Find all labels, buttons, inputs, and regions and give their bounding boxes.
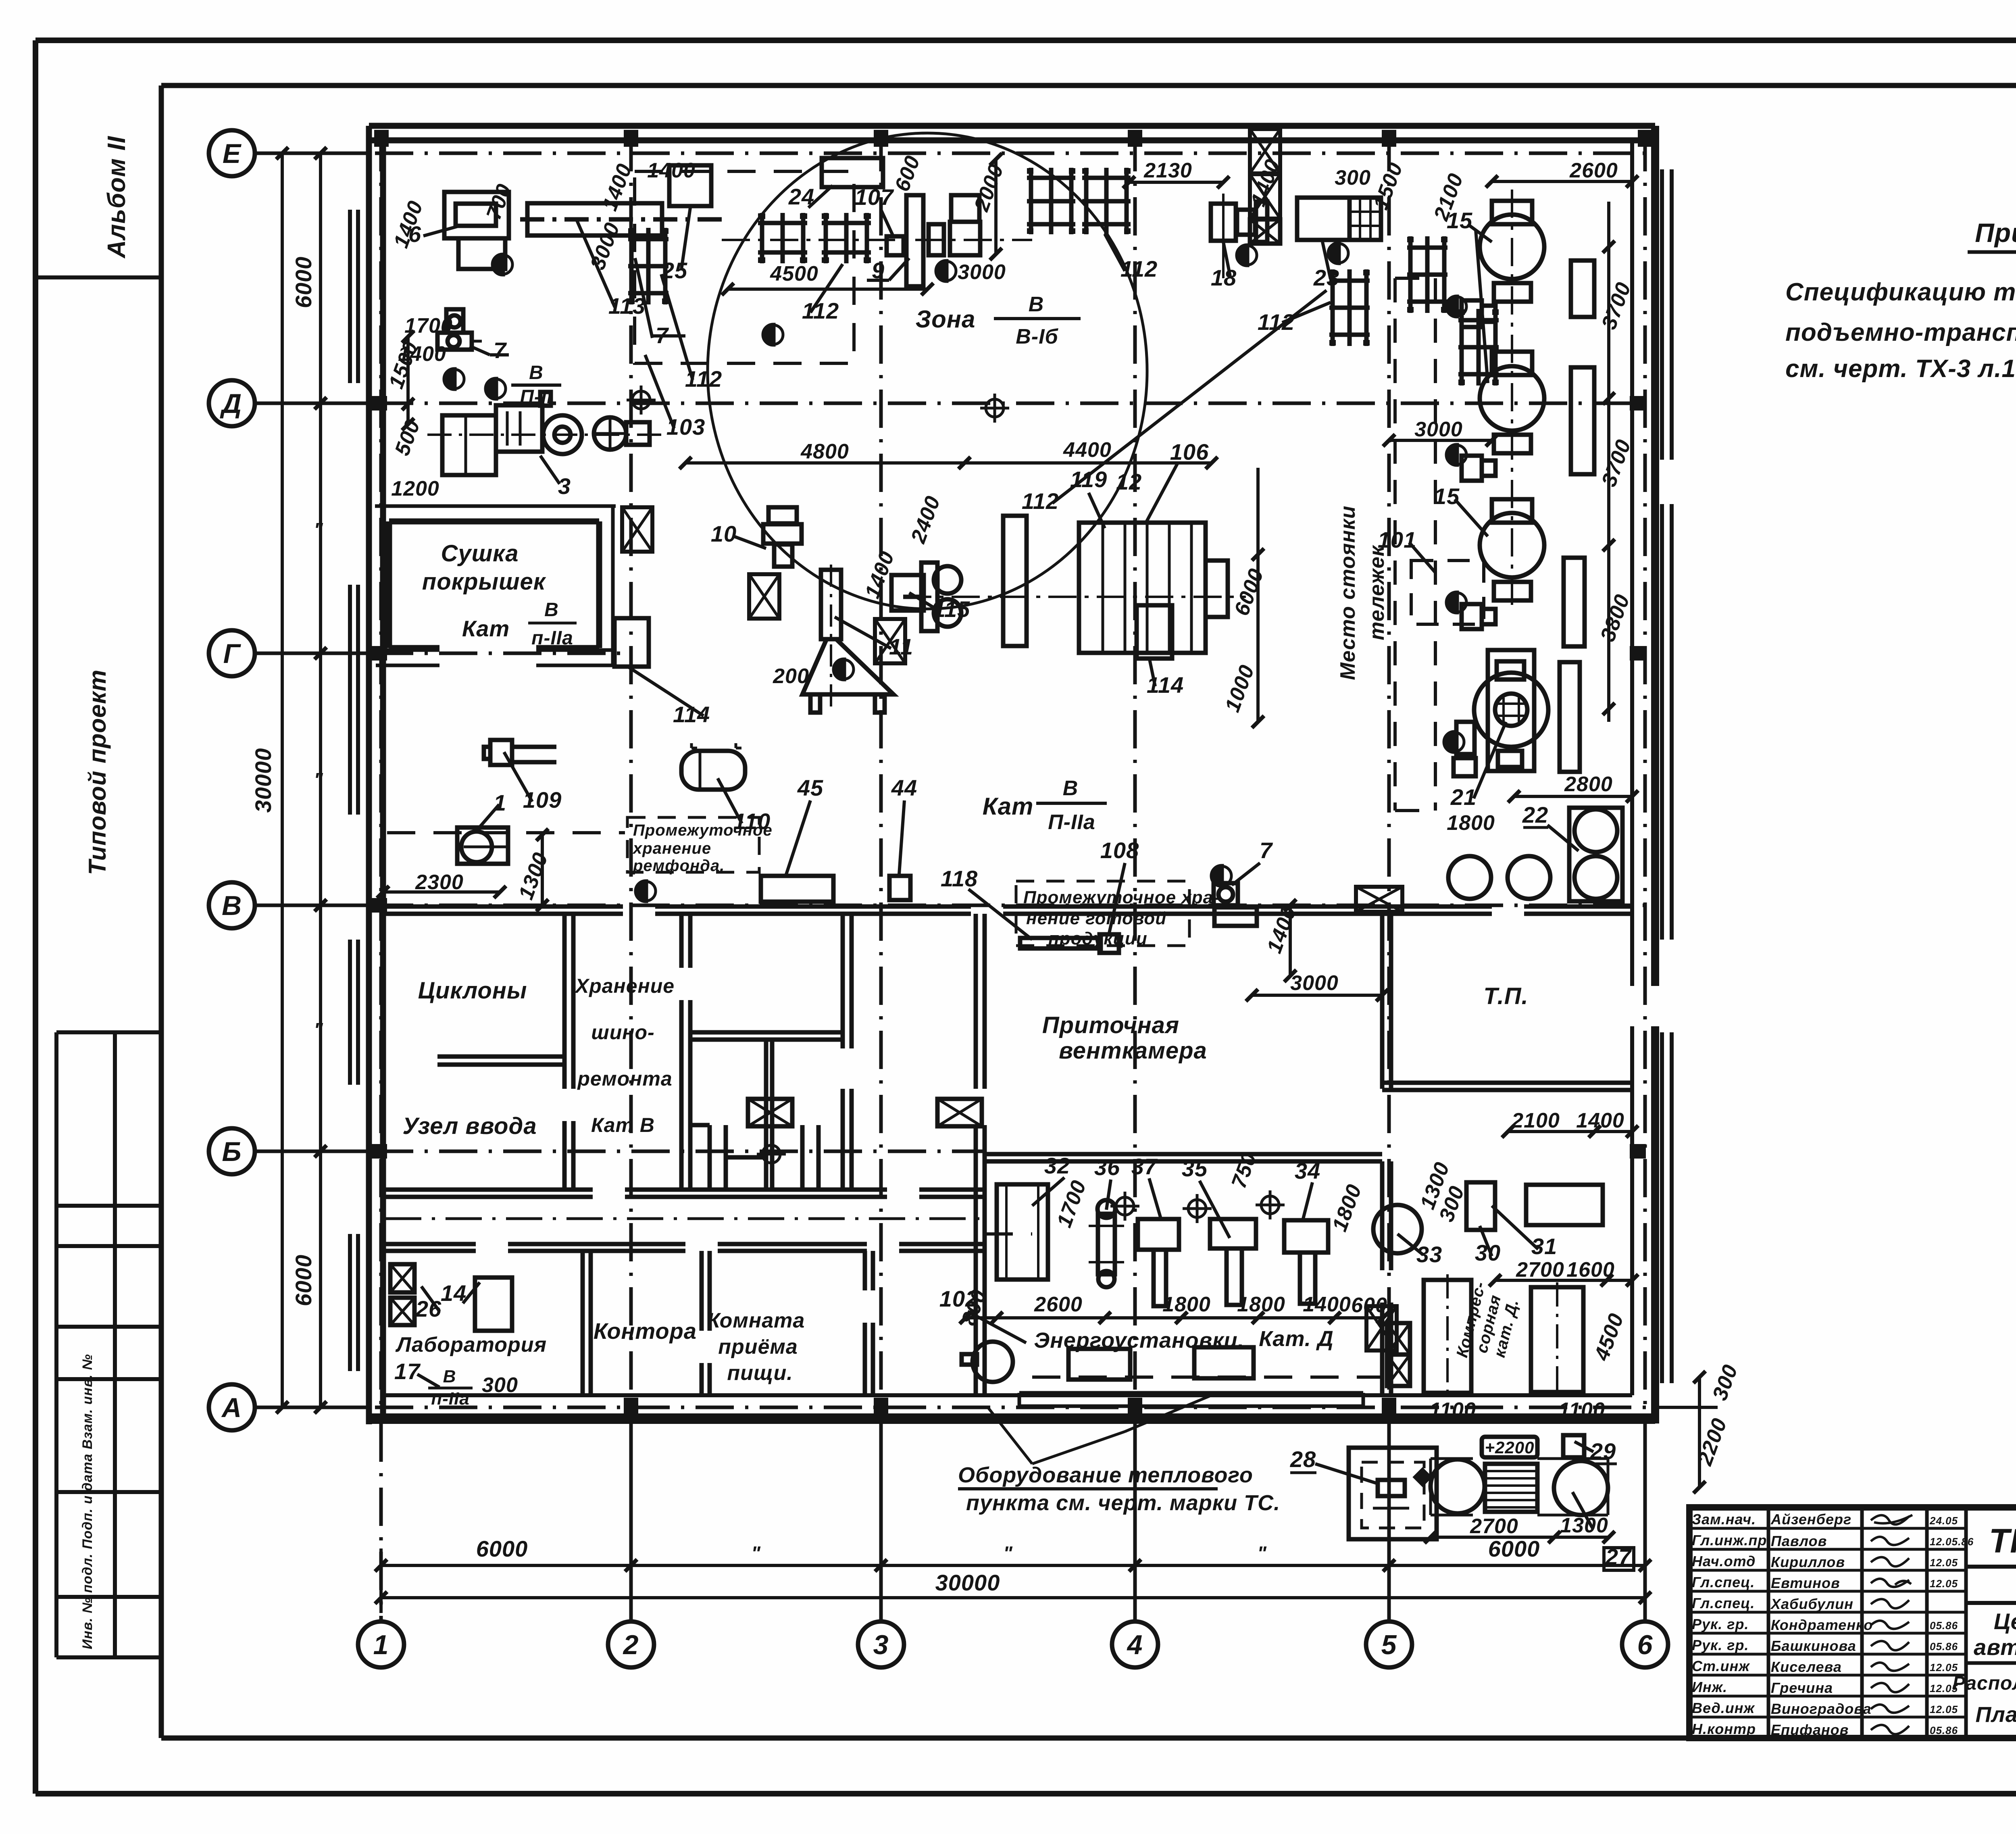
machine 115 [891, 575, 924, 611]
lower rects energo [1068, 1347, 1254, 1380]
svg-text:1400: 1400 [1576, 1109, 1624, 1132]
cyclone room half wall [437, 1057, 564, 1065]
svg-text:Цех по ремонту: Цех по ремонту [1994, 1609, 2016, 1634]
svg-text:Оборудование теплового: Оборудование теплового [958, 1463, 1253, 1487]
svg-text:22: 22 [1522, 802, 1548, 827]
svg-text:Комната: Комната [707, 1309, 805, 1332]
svg-text:11: 11 [889, 634, 913, 659]
svg-text:2700: 2700 [1470, 1515, 1518, 1538]
svg-text:12.05.86: 12.05.86 [1930, 1536, 1974, 1548]
svg-text:хранение: хранение [632, 840, 711, 857]
svg-text:Альбом II: Альбом II [103, 135, 131, 259]
leader lines [417, 185, 1593, 1528]
svg-text:Промежуточное хра-: Промежуточное хра- [1023, 888, 1220, 907]
svg-text:Кат В: Кат В [591, 1114, 655, 1136]
svg-text:7: 7 [1260, 838, 1273, 863]
svg-text:600: 600 [1351, 1294, 1387, 1317]
svg-text:32: 32 [1044, 1153, 1070, 1178]
svg-text:114: 114 [673, 702, 710, 727]
svg-text:тележек: тележек [1365, 545, 1389, 640]
compressor machines [1424, 1274, 1583, 1397]
machine 7 right [1214, 883, 1257, 926]
svg-text:109: 109 [523, 787, 562, 813]
svg-text:3000: 3000 [1290, 971, 1339, 995]
svg-text:А: А [221, 1392, 242, 1423]
svg-text:7: 7 [494, 338, 507, 363]
svg-text:Киселева: Киселева [1771, 1659, 1842, 1675]
svg-text:700: 700 [482, 181, 516, 223]
svg-text:Хабибулин: Хабибулин [1770, 1596, 1854, 1612]
svg-text:3: 3 [558, 473, 571, 499]
svg-text:1: 1 [494, 790, 506, 815]
svg-text:Гл.спец.: Гл.спец. [1692, 1574, 1755, 1590]
svg-text:п-IIа: п-IIа [431, 1389, 469, 1409]
svg-text:30000: 30000 [935, 1570, 1000, 1595]
circle pair row [1448, 856, 1550, 899]
svg-text:4400: 4400 [1063, 438, 1112, 462]
svg-text:ТП 405-7-4.86: ТП 405-7-4.86 [1989, 1522, 2016, 1560]
X tower near 18 [1250, 129, 1280, 244]
racks pair right of 9 [1027, 168, 1131, 234]
svg-text:1100: 1100 [1429, 1398, 1476, 1422]
svg-text:45: 45 [797, 775, 823, 800]
svg-text:3800: 3800 [1596, 591, 1634, 644]
svg-text:6: 6 [1637, 1630, 1653, 1660]
svg-text:Н.контр: Н.контр [1692, 1721, 1756, 1737]
svg-text:2000: 2000 [970, 161, 1008, 215]
machine 7 drill [437, 309, 482, 350]
axis col circle 4 [1112, 1621, 1158, 1667]
svg-text:ремонта: ремонта [577, 1067, 672, 1090]
machine 22 block [1569, 808, 1622, 901]
svg-text:23: 23 [1313, 265, 1339, 290]
svg-text:1200: 1200 [391, 477, 439, 500]
circle bottom-left energo [962, 1342, 1013, 1382]
svg-text:3700: 3700 [1597, 436, 1635, 490]
dimension lines with ticks [377, 153, 1718, 1543]
svg-text:шино-: шино- [591, 1021, 654, 1044]
wall pilasters left [371, 396, 387, 411]
svg-text:Епифанов: Епифанов [1771, 1721, 1849, 1738]
svg-text:Узел ввода: Узел ввода [402, 1113, 537, 1139]
main title block frame [1689, 1507, 2016, 1738]
svg-text:6000: 6000 [476, 1536, 528, 1561]
svg-text:Сушка: Сушка [441, 540, 519, 567]
svg-text:10: 10 [711, 521, 737, 546]
svg-text:Вед.инж: Вед.инж [1692, 1700, 1755, 1716]
svg-text:см. черт. ТХ-3 л.1.: см. черт. ТХ-3 л.1. [1785, 355, 2016, 383]
machine 18 [1211, 194, 1267, 278]
svg-text:12.05: 12.05 [1930, 1557, 1958, 1569]
wall pilasters top [371, 130, 1652, 1414]
axis row circle V [209, 882, 255, 928]
axis col circle 5 [1366, 1621, 1412, 1667]
dashed rect 101 [1411, 561, 1484, 624]
svg-text:12.05: 12.05 [1930, 1703, 1958, 1715]
big lathe machine 12 [903, 516, 1246, 653]
svg-text:Инж.: Инж. [1692, 1679, 1727, 1695]
svg-text:44: 44 [891, 775, 917, 800]
X box compressor left [1366, 1306, 1397, 1350]
svg-text:15: 15 [1447, 208, 1472, 233]
svg-text:3000: 3000 [1414, 418, 1463, 441]
svg-text:Кат. Д: Кат. Д [1259, 1327, 1334, 1351]
axis row circle A [209, 1384, 255, 1430]
svg-text:Рук. гр.: Рук. гр. [1692, 1616, 1749, 1632]
svg-text:Зона: Зона [916, 306, 976, 333]
svg-text:600: 600 [890, 152, 925, 194]
machine 3 group [427, 392, 661, 475]
svg-text:нение готовой: нение готовой [1026, 909, 1166, 928]
svg-text:2400: 2400 [906, 493, 945, 546]
svg-text:В: В [544, 599, 559, 621]
column axis dash-dot lines [381, 133, 1645, 1621]
svg-text:2100: 2100 [1511, 1109, 1560, 1132]
square 29 [1563, 1435, 1584, 1457]
right part lines [1966, 1565, 2016, 1569]
conveyor racks row [722, 213, 1032, 263]
svg-text:Контора: Контора [594, 1318, 697, 1344]
svg-text:В: В [529, 362, 544, 383]
crosshair markers top [627, 386, 1009, 1169]
machine 36 vessel [1089, 1200, 1124, 1287]
machine 114 right [1137, 605, 1172, 659]
loading ramp bottom [1019, 1393, 1363, 1406]
svg-text:18: 18 [1211, 265, 1237, 290]
X box energo right [1387, 1323, 1410, 1386]
svg-text:Приточная: Приточная [1042, 1012, 1179, 1038]
racks right top [1329, 236, 1499, 386]
conveyor 24 rect [822, 158, 883, 187]
svg-text:2: 2 [623, 1630, 639, 1660]
svg-text:2600: 2600 [1034, 1293, 1083, 1316]
axis col circle 6 [1622, 1621, 1668, 1667]
svg-text:Примечание.: Примечание. [1975, 218, 2016, 248]
svg-text:119: 119 [1070, 467, 1107, 492]
svg-text:п-IIа: п-IIа [531, 627, 573, 649]
svg-text:4500: 4500 [1590, 1310, 1629, 1364]
X box mid [749, 574, 779, 619]
rack 112 left [628, 228, 669, 304]
svg-text:Гречина: Гречина [1771, 1680, 1833, 1696]
axis col circle 2 [608, 1621, 654, 1667]
signature table verticals [1768, 1507, 1966, 1738]
svg-text:1700: 1700 [1052, 1177, 1091, 1230]
svg-text:Кат: Кат [983, 793, 1034, 820]
svg-text:1100: 1100 [1558, 1398, 1605, 1422]
lower band top wall [383, 1244, 984, 1251]
svg-text:": " [314, 769, 323, 791]
bottom dimension chain [381, 1548, 1645, 1613]
svg-text:Кат: Кат [462, 616, 510, 641]
22 underline [1523, 826, 1548, 829]
svg-text:": " [1257, 1543, 1267, 1564]
svg-text:Лаборатория: Лаборатория [395, 1333, 547, 1357]
outside pavement strips left [350, 169, 1672, 1383]
svg-text:108: 108 [1100, 838, 1139, 863]
svg-text:36: 36 [1094, 1155, 1120, 1180]
axis row circle E [209, 130, 255, 176]
svg-text:1300: 1300 [1560, 1514, 1608, 1537]
machine 1 [457, 827, 508, 864]
svg-text:Гл.спец.: Гл.спец. [1692, 1595, 1755, 1611]
machine 114 sushka [614, 618, 649, 667]
svg-text:Циклоны: Циклоны [418, 977, 527, 1004]
svg-text:Спецификацию технологического: Спецификацию технологического и [1785, 278, 2016, 306]
svg-text:Башкинова: Башкинова [1771, 1638, 1856, 1654]
ventkamera room [976, 914, 1632, 1395]
wall pilasters bottom [624, 1398, 638, 1414]
signature rows [1689, 1528, 1966, 1717]
svg-text:6000: 6000 [291, 256, 316, 308]
lab fraction [428, 1367, 473, 1409]
svg-text:План на отм. 0.000: План на отм. 0.000 [1975, 1703, 2016, 1727]
svg-text:В: В [1029, 293, 1044, 316]
svg-text:102: 102 [939, 1286, 978, 1311]
X boxes stair block [748, 1099, 982, 1126]
promezhutochnoe hranenie gotovoy produkcii dashed box [1016, 881, 1220, 948]
machine 109 [484, 740, 556, 765]
svg-text:": " [314, 1019, 323, 1041]
svg-text:Кириллов: Кириллов [1771, 1554, 1845, 1570]
svg-text:Айзенберг: Айзенберг [1770, 1511, 1851, 1528]
wall pilasters right [1630, 396, 1646, 411]
machine 107 [887, 195, 944, 286]
machine 34 T [1284, 1220, 1328, 1304]
svg-text:1: 1 [373, 1630, 389, 1660]
circles 15 group [1480, 190, 1544, 605]
small clusters left of 15 [1462, 300, 1495, 629]
svg-text:Б: Б [222, 1136, 242, 1167]
svg-text:101: 101 [1378, 527, 1416, 552]
svg-text:Рук. гр.: Рук. гр. [1692, 1637, 1749, 1653]
svg-text:2800: 2800 [1564, 773, 1613, 796]
svg-text:покрышек: покрышек [422, 569, 546, 595]
equipment number labels [394, 184, 1632, 1569]
machine 113 conveyor [520, 203, 726, 236]
svg-text:автомобильных шин.: автомобильных шин. [1974, 1634, 2016, 1660]
svg-text:5: 5 [1381, 1630, 1397, 1660]
svg-text:Е: Е [223, 138, 242, 169]
X box mid2 [875, 619, 905, 663]
B-row wall [383, 1190, 984, 1197]
machine 37 T [1138, 1219, 1179, 1306]
axis row circle B [209, 1128, 255, 1174]
axis col circle 3 [858, 1621, 904, 1667]
svg-text:": " [751, 1543, 761, 1564]
outside pavement strips right [1662, 169, 1672, 460]
machine 31 [1526, 1185, 1603, 1225]
X box near sushka [622, 507, 652, 552]
svg-text:106: 106 [1170, 439, 1209, 465]
X boxes laboratory [390, 1264, 512, 1331]
svg-text:118: 118 [941, 866, 978, 891]
svg-text:": " [1003, 1543, 1013, 1564]
svg-text:Евтинов: Евтинов [1771, 1575, 1840, 1591]
date column small texts [1929, 1515, 1974, 1736]
svg-text:Инв. № подл. Подп. и дата Вз: Инв. № подл. Подп. и дата Взам. инв. № [80, 1354, 95, 1649]
svg-text:300: 300 [1708, 1361, 1742, 1403]
svg-text:1300: 1300 [514, 849, 552, 902]
svg-text:Т.П.: Т.П. [1483, 983, 1528, 1009]
svg-text:Типовой проект: Типовой проект [84, 669, 111, 875]
svg-text:Хранение: Хранение [574, 975, 675, 997]
svg-text:4800: 4800 [800, 440, 849, 463]
svg-text:пункта см. черт. марки ТС: пункта см. черт. марки ТС. [966, 1491, 1280, 1515]
zone circle [708, 133, 1147, 609]
svg-text:200: 200 [773, 665, 809, 688]
svg-text:В: В [222, 890, 242, 921]
promezhutochnoe hranenie remfonda dashed box [627, 817, 773, 875]
svg-text:": " [314, 519, 323, 541]
machine 32 [997, 1184, 1048, 1280]
row axis dash-dot lines [255, 153, 1655, 1407]
svg-text:05.86: 05.86 [1930, 1619, 1958, 1632]
svg-text:1500: 1500 [1369, 159, 1407, 213]
svg-text:1400: 1400 [1303, 1293, 1351, 1316]
svg-text:Д: Д [220, 388, 242, 419]
svg-text:Расположение оборудования.: Расположение оборудования. [1952, 1673, 2016, 1694]
rect right of 21 [1560, 662, 1580, 772]
svg-text:1800: 1800 [1328, 1181, 1366, 1234]
svg-text:107: 107 [855, 184, 894, 210]
svg-text:3: 3 [873, 1630, 889, 1660]
svg-text:17: 17 [394, 1359, 421, 1384]
svg-text:Кондратенко: Кондратенко [1771, 1617, 1873, 1633]
svg-text:приёма: приёма [718, 1335, 798, 1359]
outer wall bottom [369, 1413, 1655, 1424]
left dimension chain [264, 153, 339, 1407]
left margin column [35, 277, 161, 1657]
svg-text:35: 35 [1182, 1156, 1208, 1181]
29 label underline [1591, 1463, 1617, 1465]
machine 25 [669, 165, 711, 206]
+2200 plate [1482, 1437, 1537, 1457]
svg-text:6000: 6000 [291, 1255, 316, 1307]
svg-text:3000: 3000 [586, 219, 624, 273]
axis row circle G [209, 630, 255, 676]
svg-text:П-IIа: П-IIа [1048, 811, 1095, 834]
machine 35 T [1210, 1219, 1256, 1305]
svg-text:15: 15 [1434, 484, 1460, 509]
circle 33 [1373, 1205, 1422, 1253]
svg-text:05.86: 05.86 [1930, 1724, 1958, 1736]
svg-text:12: 12 [1116, 469, 1142, 494]
svg-text:4500: 4500 [770, 262, 818, 286]
vertical partitions lower-left block [437, 914, 873, 1395]
machine 10 stack [763, 507, 802, 567]
svg-text:+2200: +2200 [1485, 1438, 1535, 1457]
mesto stoyanki dashed box [1395, 278, 1435, 811]
svg-text:Ст.инж: Ст.инж [1692, 1658, 1750, 1674]
svg-text:24.05: 24.05 [1929, 1515, 1958, 1527]
svg-text:1800: 1800 [1447, 811, 1495, 835]
dashed zone 103 [635, 171, 854, 363]
heat exchanger row [1431, 1459, 1608, 1515]
svg-text:Гл.инж.пр: Гл.инж.пр [1692, 1532, 1767, 1548]
tank 110 [681, 743, 745, 790]
svg-text:В: В [443, 1367, 456, 1386]
svg-text:300: 300 [1335, 166, 1371, 190]
crosshairs energo [1110, 1190, 1285, 1223]
V-row wall [383, 907, 1632, 914]
svg-text:Зам.нач.: Зам.нач. [1692, 1511, 1756, 1528]
svg-text:Виноградова: Виноградова [1771, 1701, 1871, 1717]
oborudovanie teplovogo punkta note [958, 1396, 1280, 1515]
machine 44 [889, 876, 910, 900]
corridor dashed lines [387, 831, 625, 834]
svg-text:ремфонда.: ремфонда. [633, 857, 725, 875]
axis row circle D [209, 380, 255, 426]
svg-text:В: В [1063, 777, 1079, 800]
svg-text:4: 4 [1127, 1630, 1143, 1660]
machine 118 rod [1020, 934, 1119, 953]
svg-text:1000: 1000 [1220, 662, 1259, 715]
machine 9 [950, 195, 980, 255]
machine 6 [444, 192, 509, 269]
outer wall top [369, 126, 1655, 1424]
machine 30 [1466, 1182, 1495, 1230]
halfdot markers [445, 244, 1466, 901]
svg-text:1400: 1400 [1262, 903, 1301, 956]
machine 21 [1454, 650, 1548, 776]
signature table texts [1692, 1511, 1873, 1738]
svg-text:112: 112 [1120, 256, 1158, 281]
svg-text:1400: 1400 [647, 159, 696, 182]
X box corridor right [1356, 887, 1402, 912]
outer wall right [1651, 126, 1659, 1423]
svg-text:6: 6 [408, 221, 421, 247]
axis col circle 1 [358, 1621, 404, 1667]
outer wall left [366, 126, 372, 1424]
svg-text:3700: 3700 [1597, 279, 1635, 332]
svg-text:37: 37 [1131, 1154, 1158, 1179]
machine 28 annex [1349, 1448, 1437, 1539]
svg-text:пищи.: пищи. [727, 1361, 793, 1385]
machine 45 [761, 876, 833, 902]
svg-text:Павлов: Павлов [1771, 1533, 1827, 1549]
svg-text:112: 112 [802, 298, 839, 323]
room sushka pokryshek walls [389, 521, 599, 648]
svg-text:6000: 6000 [1230, 565, 1268, 619]
svg-text:12.05: 12.05 [1930, 1661, 1958, 1674]
28 underline [1290, 1471, 1316, 1474]
svg-text:30000: 30000 [250, 748, 276, 813]
machine 23 [1297, 198, 1381, 240]
svg-text:34: 34 [1295, 1158, 1320, 1184]
svg-text:2600: 2600 [1569, 159, 1618, 182]
svg-text:05.86: 05.86 [1930, 1640, 1958, 1653]
svg-text:2130: 2130 [1143, 159, 1192, 182]
svg-text:2700: 2700 [1516, 1258, 1564, 1282]
tall rects right of 15 [1564, 261, 1594, 646]
svg-text:28: 28 [1290, 1446, 1316, 1472]
svg-text:Место стоянки: Место стоянки [1336, 506, 1360, 680]
svg-text:3000: 3000 [958, 261, 1006, 284]
svg-text:венткамера: венткамера [1059, 1038, 1207, 1064]
svg-text:Нач.отд: Нач.отд [1692, 1553, 1756, 1569]
svg-text:12.05: 12.05 [1930, 1578, 1958, 1590]
svg-text:В-Iб: В-Iб [1016, 325, 1058, 348]
signature squiggles [1871, 1515, 1912, 1734]
machine 11 funnel [802, 565, 893, 713]
svg-text:300: 300 [482, 1373, 518, 1397]
svg-text:Г: Г [223, 638, 242, 669]
27 box [1604, 1548, 1634, 1570]
svg-text:6000: 6000 [1488, 1536, 1540, 1561]
svg-text:подъемно-транспортного оборуд: подъемно-транспортного оборудования [1785, 319, 2016, 346]
